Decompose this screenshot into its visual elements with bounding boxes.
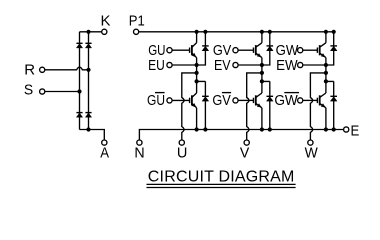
wire freewheel diode D7 branch <box>262 32 270 65</box>
terminal GV gate upper <box>233 48 238 53</box>
junction D6 cathode jog <box>195 79 199 83</box>
IGBT Q1 U-phase upper <box>190 43 197 58</box>
wire inverter top rail from P1 <box>139 31 334 33</box>
wire gate GW-bar to Q6 <box>303 99 318 101</box>
svg-text:EV: EV <box>214 57 231 73</box>
svg-text:GW: GW <box>276 41 299 58</box>
junction D5 cathode / top rail <box>203 30 207 34</box>
IGBT Q2 U-phase lower <box>190 93 197 108</box>
junction D8 cathode jog <box>260 79 264 83</box>
wire Q3 emitter vertical to Q4 collector <box>261 58 263 93</box>
wire rectifier bottom rail to A <box>80 130 105 141</box>
terminal EU emitter sense <box>167 62 172 67</box>
svg-text:GV: GV <box>213 41 232 58</box>
wire R input with hop over left leg <box>45 67 89 70</box>
freewheel diode D8 lower V <box>267 96 274 101</box>
wire freewheel diode D8 branch <box>262 81 270 129</box>
wire inverter bottom rail N to E <box>139 130 343 141</box>
junction S / left leg <box>77 89 81 93</box>
wire EW to emitter node <box>303 64 326 66</box>
junction D8 anode / bottom rail <box>268 127 272 131</box>
terminal GW gate upper <box>298 48 303 53</box>
wire Q1 collector to top rail <box>196 32 198 43</box>
wire Q4 emitter to bottom rail <box>261 108 263 130</box>
wire Q2 emitter to bottom rail <box>196 108 198 130</box>
junction Q2 emitter / bottom rail <box>195 127 199 131</box>
wire gate GV to Q3 <box>238 49 253 51</box>
terminal P1 <box>134 29 139 34</box>
junction Q4 emitter / bottom rail <box>260 127 264 131</box>
wire Q3 collector to top rail <box>261 32 263 43</box>
wire Q5 collector to top rail <box>325 32 327 43</box>
junction Q5 collector / top rail <box>324 30 328 34</box>
junction EV / D7 anode node <box>260 63 264 67</box>
IGBT Q3 V-phase upper <box>254 43 262 58</box>
title underline lower <box>147 187 296 189</box>
wire freewheel diode D10 branch <box>326 81 334 129</box>
terminal GU-bar gate lower <box>167 98 172 103</box>
wire phase W output tap with hops <box>310 73 326 140</box>
junction tap U / emitter vertical <box>195 71 199 75</box>
terminal EW emitter sense <box>298 62 303 67</box>
svg-text:R: R <box>24 62 35 79</box>
svg-text:U: U <box>177 146 188 162</box>
terminal N <box>137 140 142 145</box>
freewheel diode D9 upper W <box>330 46 337 51</box>
svg-text:A: A <box>100 144 109 161</box>
IGBT Q6 W-phase lower <box>317 93 326 108</box>
diode D1 rectifier left upper <box>76 43 82 48</box>
terminal GV-bar gate lower <box>233 98 238 103</box>
freewheel diode D7 upper V <box>267 46 274 51</box>
svg-text:V: V <box>240 145 250 161</box>
wire freewheel diode D5 branch <box>197 32 206 65</box>
terminal E <box>344 127 349 132</box>
wire S input <box>45 91 80 93</box>
terminal A <box>102 140 107 145</box>
svg-text:EU: EU <box>148 57 165 74</box>
svg-text:GW: GW <box>274 92 298 109</box>
svg-text:S: S <box>24 82 33 99</box>
terminal K <box>102 29 107 34</box>
freewheel diode D5 upper U <box>202 46 209 51</box>
junction R / right leg <box>86 68 90 72</box>
junction EW / D9 anode node <box>324 63 328 67</box>
wire phase U output tap with hops <box>182 73 197 140</box>
junction Q1 collector / top rail <box>195 30 199 34</box>
IGBT Q4 V-phase lower <box>254 93 262 108</box>
wire EV to emitter node <box>238 64 262 66</box>
wire freewheel diode D6 branch <box>197 81 206 129</box>
terminal W phase output <box>308 140 313 145</box>
wire phase V output tap with hops <box>247 73 262 140</box>
terminal U phase output <box>179 140 184 145</box>
terminal EV emitter sense <box>233 62 238 67</box>
junction EU / D5 anode node <box>195 63 199 67</box>
diode D2 rectifier right upper <box>85 43 91 48</box>
wire gate GU-bar to Q2 <box>172 99 190 101</box>
wire gate GW to Q5 <box>303 49 318 51</box>
junction Q3 collector / top rail <box>260 30 264 34</box>
junction right leg / top rail <box>86 30 90 34</box>
freewheel diode D10 lower W <box>330 96 337 101</box>
freewheel diode D6 lower U <box>202 96 209 101</box>
terminal GU gate upper <box>167 48 172 53</box>
junction tap V / emitter vertical <box>260 71 264 75</box>
svg-text:GV: GV <box>212 91 231 108</box>
diode D3 rectifier left lower <box>76 113 82 118</box>
terminal R <box>40 67 45 72</box>
wire Q5 emitter vertical to Q6 collector <box>325 58 327 93</box>
wire gate GV-bar to Q4 <box>238 99 253 101</box>
wire gate GU to Q1 <box>172 49 190 51</box>
junction tap W / emitter vertical <box>324 71 328 75</box>
terminal V phase output <box>244 140 249 145</box>
junction D10 anode / bottom rail <box>332 127 336 131</box>
overbar of GV-bar label <box>222 92 231 94</box>
wire Q1 emitter vertical to Q2 collector <box>196 58 198 93</box>
wire EU to emitter node <box>172 64 197 66</box>
svg-text:EW: EW <box>276 57 298 74</box>
junction D9 cathode / top rail <box>332 30 336 34</box>
svg-text:K: K <box>100 12 110 29</box>
junction D10 cathode jog <box>324 79 328 83</box>
junction Q6 emitter / bottom rail <box>324 127 328 131</box>
title underline upper <box>147 183 296 185</box>
wire Q6 emitter to bottom rail <box>325 108 327 130</box>
junction right leg / bottom rail <box>86 127 90 131</box>
svg-text:P1: P1 <box>129 12 145 29</box>
svg-text:N: N <box>134 145 144 161</box>
junction D7 cathode / top rail <box>268 30 272 34</box>
overbar of GU-bar label <box>155 92 165 94</box>
wire rectifier right leg vertical <box>88 32 90 130</box>
junction D6 anode / bottom rail <box>203 127 207 131</box>
wire rectifier top rail to K <box>80 31 102 33</box>
svg-text:CIRCUIT DIAGRAM: CIRCUIT DIAGRAM <box>148 169 295 186</box>
wire freewheel diode D9 branch <box>326 32 334 65</box>
svg-text:E: E <box>350 122 359 139</box>
overbar of GW-bar label <box>284 92 299 94</box>
IGBT Q5 W-phase upper <box>317 43 326 58</box>
diode D4 rectifier right lower <box>85 113 91 118</box>
svg-text:W: W <box>305 145 318 162</box>
svg-text:GU: GU <box>147 92 165 109</box>
terminal GW-bar gate lower <box>298 98 303 103</box>
wire rectifier left leg vertical <box>79 32 81 130</box>
terminal S <box>40 89 45 94</box>
